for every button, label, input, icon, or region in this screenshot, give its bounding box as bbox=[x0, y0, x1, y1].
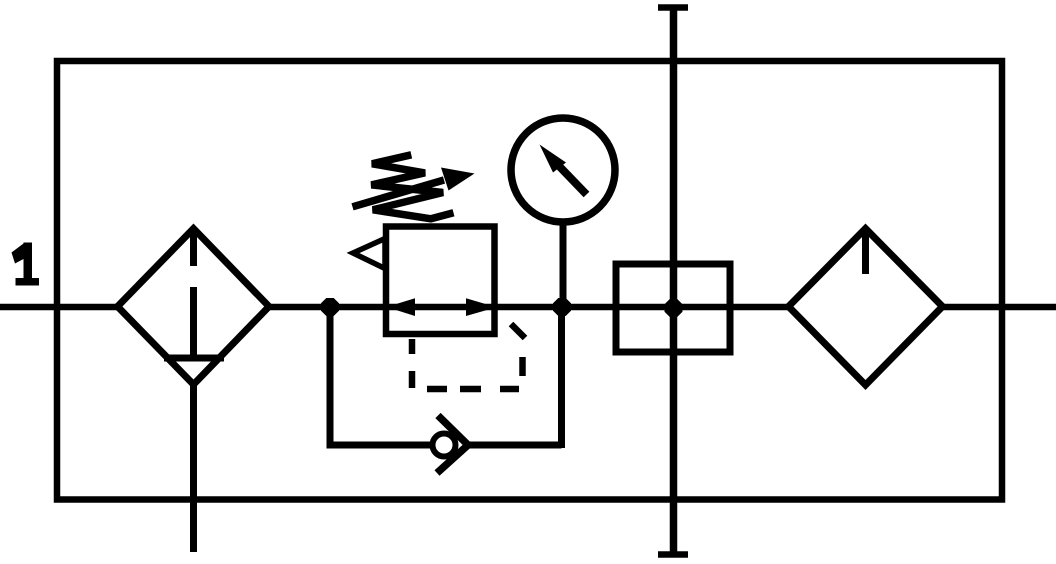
wire: bypass right vertical bbox=[558, 307, 565, 448]
regulator relief vent triangle bbox=[353, 239, 385, 269]
wire: main line left segment bbox=[0, 304, 118, 311]
wire: gauge stem bbox=[560, 222, 567, 307]
regulator flow arrow right bbox=[466, 298, 497, 316]
check valve bbox=[433, 416, 469, 474]
lubricator (right diamond) bbox=[789, 229, 943, 386]
wire: bypass bottom left bbox=[327, 442, 431, 449]
wire: vertical assembly line bbox=[670, 7, 678, 555]
pressure regulator body bbox=[386, 227, 495, 335]
node B (gauge / bypass tee, right) bbox=[553, 298, 571, 316]
regulator flow arrow left bbox=[387, 298, 416, 316]
pilot line (dashed feedback) bbox=[412, 324, 525, 389]
pressure gauge bbox=[511, 118, 615, 222]
node C (module box center) bbox=[665, 299, 683, 317]
wire: main line middle segment bbox=[269, 304, 789, 311]
regulator adjustment arrow bbox=[353, 168, 475, 207]
regulator adjustment spring bbox=[371, 155, 453, 219]
module connection box bbox=[616, 264, 730, 352]
top end tick bbox=[658, 4, 688, 11]
port label 1 bbox=[12, 243, 40, 286]
wire: bypass left vertical bbox=[327, 307, 334, 445]
enclosure box bbox=[57, 61, 1002, 500]
wire: condensate drain line bbox=[190, 384, 197, 552]
bottom end tick bbox=[658, 551, 688, 558]
wire: bypass bottom right bbox=[468, 442, 562, 449]
node A (bypass tee, left) bbox=[321, 298, 339, 316]
wire: main line right segment bbox=[943, 304, 1056, 311]
filter with water separator (left diamond) bbox=[118, 229, 270, 385]
